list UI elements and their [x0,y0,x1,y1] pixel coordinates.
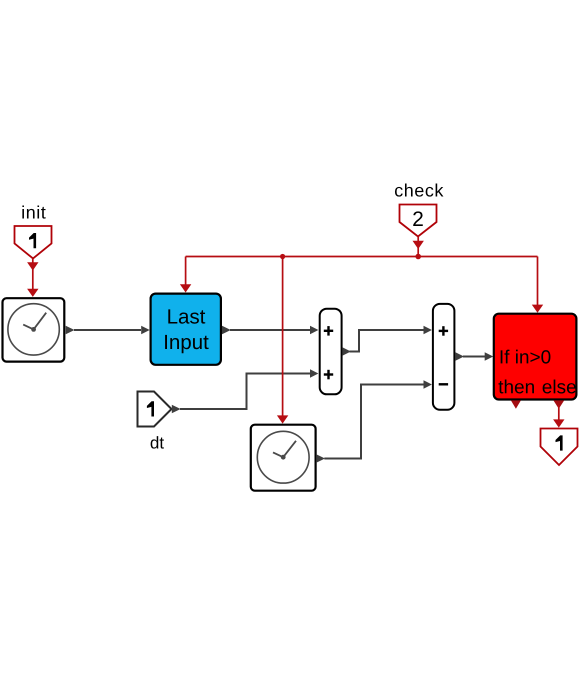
clock block CLK2 [251,425,316,491]
input port 1 (init) [15,226,52,259]
junction node at x=282.6 [280,254,285,259]
wire If else output to out port [553,400,564,427]
label check [395,183,443,196]
If block [494,314,577,400]
If block then output arrowhead [511,400,521,408]
block Last Input [151,294,221,365]
sum block SUM2 [433,304,455,410]
input port 2 (check) [400,205,437,237]
wire clock1 to Last Input [66,326,150,335]
red horizontal activation line [186,256,538,258]
clock block CLK1 [3,298,65,361]
label dt [151,436,164,448]
sum block SUM1 [320,309,342,395]
wire sum1 to sum2 upper input [342,326,432,356]
wire Last Input to sum1 upper input [222,326,318,335]
wire sum2 to If block [455,352,493,361]
wire red down into Last Input [180,257,191,293]
output port 1 [541,429,578,466]
wire init to clock1 (red, two arrowheads) [27,259,38,297]
junction node at x=418.2 [415,254,421,260]
wire dt to sum1 lower input [172,369,319,413]
wire clock2 to sum2 lower input [316,380,432,463]
wire red down to If block [532,257,543,313]
wire red down to clock2 [277,257,288,424]
wire check port to junction [413,237,424,257]
input port 1 (dt) [138,392,172,427]
label init [22,205,45,218]
